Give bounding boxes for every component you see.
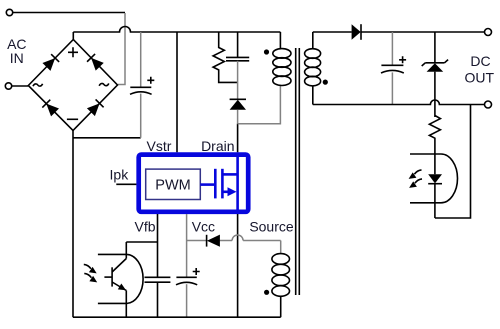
wire AC line vertical to bridge right vertex bbox=[118, 13, 125, 85]
svg-text:DC: DC bbox=[470, 53, 490, 69]
wire AC bottom to bridge left vertex bbox=[12, 85, 29, 87]
capacitor C2 snubber bbox=[226, 32, 249, 99]
wire source drop bbox=[237, 214, 239, 317]
phase dot aux bbox=[264, 290, 269, 295]
wire drain riser bbox=[237, 124, 239, 153]
diode D2 output rectifier bbox=[352, 24, 361, 40]
wire ground rail bbox=[73, 316, 281, 318]
light arrows into phototransistor bbox=[84, 264, 97, 282]
wire Vfb drop bbox=[157, 214, 159, 317]
wire primary return bbox=[238, 85, 281, 123]
wire Ipk stub bbox=[116, 183, 136, 185]
terminal J1 AC top bbox=[6, 9, 12, 15]
svg-text:Ipk: Ipk bbox=[110, 166, 130, 182]
wire bridge minus drop bbox=[72, 131, 74, 318]
wire HV bus with hop over AC line bbox=[73, 27, 280, 33]
light arrows LED emit bbox=[409, 170, 422, 188]
capacitor C3 output electrolytic bbox=[381, 32, 406, 105]
IC U1 controller outline bbox=[139, 155, 249, 212]
bridge rectifier BR1 bbox=[28, 40, 117, 131]
terminal J3 DC+ bbox=[485, 29, 492, 36]
wire bridge plus stem bbox=[72, 32, 74, 40]
phase dot primary bbox=[264, 49, 269, 54]
svg-text:Vcc: Vcc bbox=[192, 219, 215, 235]
wire LED return to DC- bbox=[435, 105, 471, 219]
transformer T1 core bbox=[296, 48, 300, 295]
svg-text:IN: IN bbox=[10, 50, 24, 66]
svg-text:Vfb: Vfb bbox=[134, 219, 155, 235]
zener diode Z1 bbox=[422, 32, 448, 117]
phototransistor Q2 bbox=[104, 242, 127, 317]
phase dot secondary bbox=[323, 80, 328, 85]
LED D3 inside optocoupler bbox=[428, 174, 442, 218]
svg-text:OUT: OUT bbox=[465, 70, 495, 86]
resistor R2 feedback bbox=[429, 116, 440, 175]
svg-text:Source: Source bbox=[249, 219, 294, 235]
PWM block bbox=[146, 169, 201, 199]
optocoupler U2 LED package bbox=[410, 154, 458, 203]
wire Vcc rectifier with hop over source line bbox=[187, 240, 281, 242]
wire secondary bottom rail with hop over zener leg bbox=[313, 86, 485, 105]
svg-text:Drain: Drain bbox=[201, 138, 234, 154]
transformer T1 secondary winding bbox=[305, 32, 321, 86]
MOSFET Q1 internal bbox=[200, 157, 237, 211]
svg-text:Vstr: Vstr bbox=[147, 138, 172, 154]
wire Vstr pin to bus bbox=[176, 32, 178, 152]
optocoupler U2 phototransistor package bbox=[98, 254, 143, 303]
capacitor C1 bulk electrolytic bbox=[130, 32, 154, 138]
terminal J2 AC bottom bbox=[5, 83, 11, 89]
wire opto collector branch bbox=[126, 241, 157, 243]
capacitor C5 Vcc electrolytic bbox=[176, 268, 200, 317]
wire Vcc drop bbox=[186, 214, 188, 277]
transformer T1 aux winding bbox=[272, 241, 290, 318]
diode D4 Vcc rectifier bbox=[207, 235, 220, 247]
transformer T1 primary winding bbox=[273, 32, 291, 85]
wire AC line top bbox=[13, 12, 125, 14]
capacitor C4 Vfb bbox=[145, 277, 171, 282]
svg-text:PWM: PWM bbox=[155, 177, 190, 193]
terminal J4 DC- bbox=[485, 101, 492, 108]
wire minus branch to C1 bbox=[73, 137, 141, 139]
wire secondary top rail bbox=[313, 31, 485, 33]
diode D1 clamp bbox=[230, 99, 246, 123]
resistor R1 snubber bbox=[213, 32, 238, 82]
